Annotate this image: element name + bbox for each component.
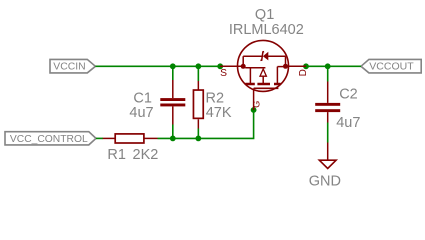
Q1 body diode triangle [263,52,268,61]
wire R2 top [197,66,199,81]
wire C1 bottom [172,125,174,139]
Q1 body-diode branch left riser [242,56,244,66]
svg-text:GND: GND [309,174,341,190]
wire R2 bottom [197,129,199,139]
Q1 drain pin [286,65,307,67]
svg-text:R1: R1 [107,147,126,163]
svg-text:47K: 47K [206,105,232,121]
net flag VCC_CONTROL [5,132,96,145]
svg-text:VCCOUT: VCCOUT [369,61,414,73]
wire C1 top [172,66,174,80]
transistor Q1 (P-MOSFET IRLML6402) [220,40,309,110]
svg-text:VCCIN: VCCIN [53,62,85,73]
capacitor C1 [160,80,185,125]
Q1 substrate stem [262,76,264,84]
Q1 body-diode branch top wire [243,55,262,57]
Q1 gate bar [254,87,279,89]
capacitor C2 [315,82,340,123]
svg-text:S: S [220,68,227,79]
Q1 source contact bar [245,67,265,69]
wire Q1 drain to VCCOUT [306,65,361,67]
net flag VCCOUT [361,59,421,73]
junction at Q1 gate pin [251,107,257,113]
Q1 body diode cathode bar [260,52,264,61]
svg-text:C1: C1 [133,90,152,106]
Q1 internal node drain [283,64,288,69]
Q1 drain contact bar [277,66,285,68]
svg-text:2K2: 2K2 [133,147,159,163]
Q1 source contact stem [249,68,251,84]
resistor R1 [103,134,158,143]
junction C1 top [170,63,176,69]
junction C2 top [325,63,331,69]
Q1 drain contact stem [276,67,278,84]
svg-text:4u7: 4u7 [336,115,360,131]
Q1 substrate arrow [260,69,266,76]
junction R2 top [195,63,201,69]
Q1 body-diode branch right riser [285,56,287,66]
Q1 gate pin [253,88,255,110]
svg-text:IRLML6402: IRLML6402 [229,22,304,38]
Q1 body circle [238,40,289,91]
Q1 channel dash right [274,83,281,86]
svg-text:R2: R2 [206,90,225,106]
net flag VCCIN [50,59,95,73]
junction at Q1 source pin [217,63,223,69]
wire R1 to gate node [158,110,254,138]
junction C1 bottom [170,136,176,142]
wire C2 to GND [327,123,329,143]
resistor R2 [193,81,203,129]
Q1 channel dash middle [257,83,270,86]
Q1 source pin [220,65,243,67]
svg-text:G: G [252,101,262,108]
svg-text:D: D [298,69,309,76]
Q1 internal node source [241,64,246,69]
wire VCC_CONTROL to R1 [96,137,103,139]
junction at Q1 drain pin [303,63,309,69]
svg-text:Q1: Q1 [255,7,274,23]
svg-text:VCC_CONTROL: VCC_CONTROL [10,134,88,145]
svg-text:C2: C2 [339,86,358,102]
wire C2 top [327,66,329,81]
junction R2 bottom [195,136,201,142]
Q1 channel dash left [245,83,255,86]
svg-text:4u7: 4u7 [129,105,153,121]
wire VCCIN to Q1 source [95,65,220,67]
ground [319,143,336,169]
